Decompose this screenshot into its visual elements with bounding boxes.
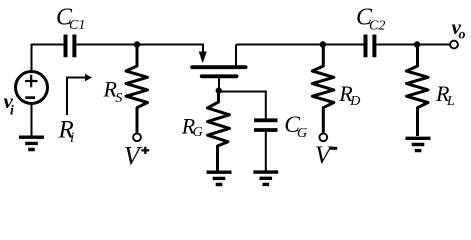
wire (source top to CC1) [32,45,64,72]
label RG [181,113,203,140]
label CG [284,112,307,141]
terminal vo [450,41,458,49]
resistor RG [208,91,230,171]
svg-text:G: G [193,125,203,140]
capacitor CC1 [66,35,75,58]
arrow Ri [67,74,92,115]
ground (below RL) [406,138,431,150]
svg-text:i: i [70,130,74,146]
svg-text:G: G [297,126,307,141]
ground (below CG) [253,172,278,184]
resistor RL [407,45,429,137]
node (RL junction) [414,41,420,47]
capacitor CC2 [366,35,375,58]
svg-text:C2: C2 [369,19,385,34]
resistor RD [312,45,334,133]
svg-text:S: S [115,91,122,106]
wire (CC2 to vo) [376,44,449,46]
wire (drain to CC2 junction) [236,44,364,46]
label V+ [124,141,143,170]
wire (gate junction to CG) [219,92,266,120]
svg-text:D: D [349,94,360,109]
node (drain / RD junction) [320,41,326,47]
terminal V+ [133,133,141,141]
svg-text:L: L [446,94,455,109]
label RS [103,76,123,106]
svg-text:o: o [459,28,466,43]
minus sign of V- [330,147,337,150]
capacitor CG [254,120,278,170]
label RL [435,81,455,109]
plus sign of V+ [141,147,149,154]
label vi [4,89,15,119]
label V- [315,140,334,169]
node (gate junction) [216,87,222,93]
label Ri [58,117,75,146]
terminal V- [319,133,327,141]
mosfet Q1 [192,45,246,91]
svg-text:i: i [10,104,14,119]
label CC1 [56,4,85,33]
svg-text:C1: C1 [69,18,85,33]
wire (CC1 to MOSFET source) [76,45,203,53]
voltage source vi [16,72,48,104]
node (CC1 / RS junction) [134,41,140,47]
ground (below source) [19,104,44,150]
ground (below RG) [207,172,232,184]
label CC2 [356,4,385,33]
label vo [452,15,466,43]
resistor RS [126,45,148,133]
label RD [338,81,360,109]
